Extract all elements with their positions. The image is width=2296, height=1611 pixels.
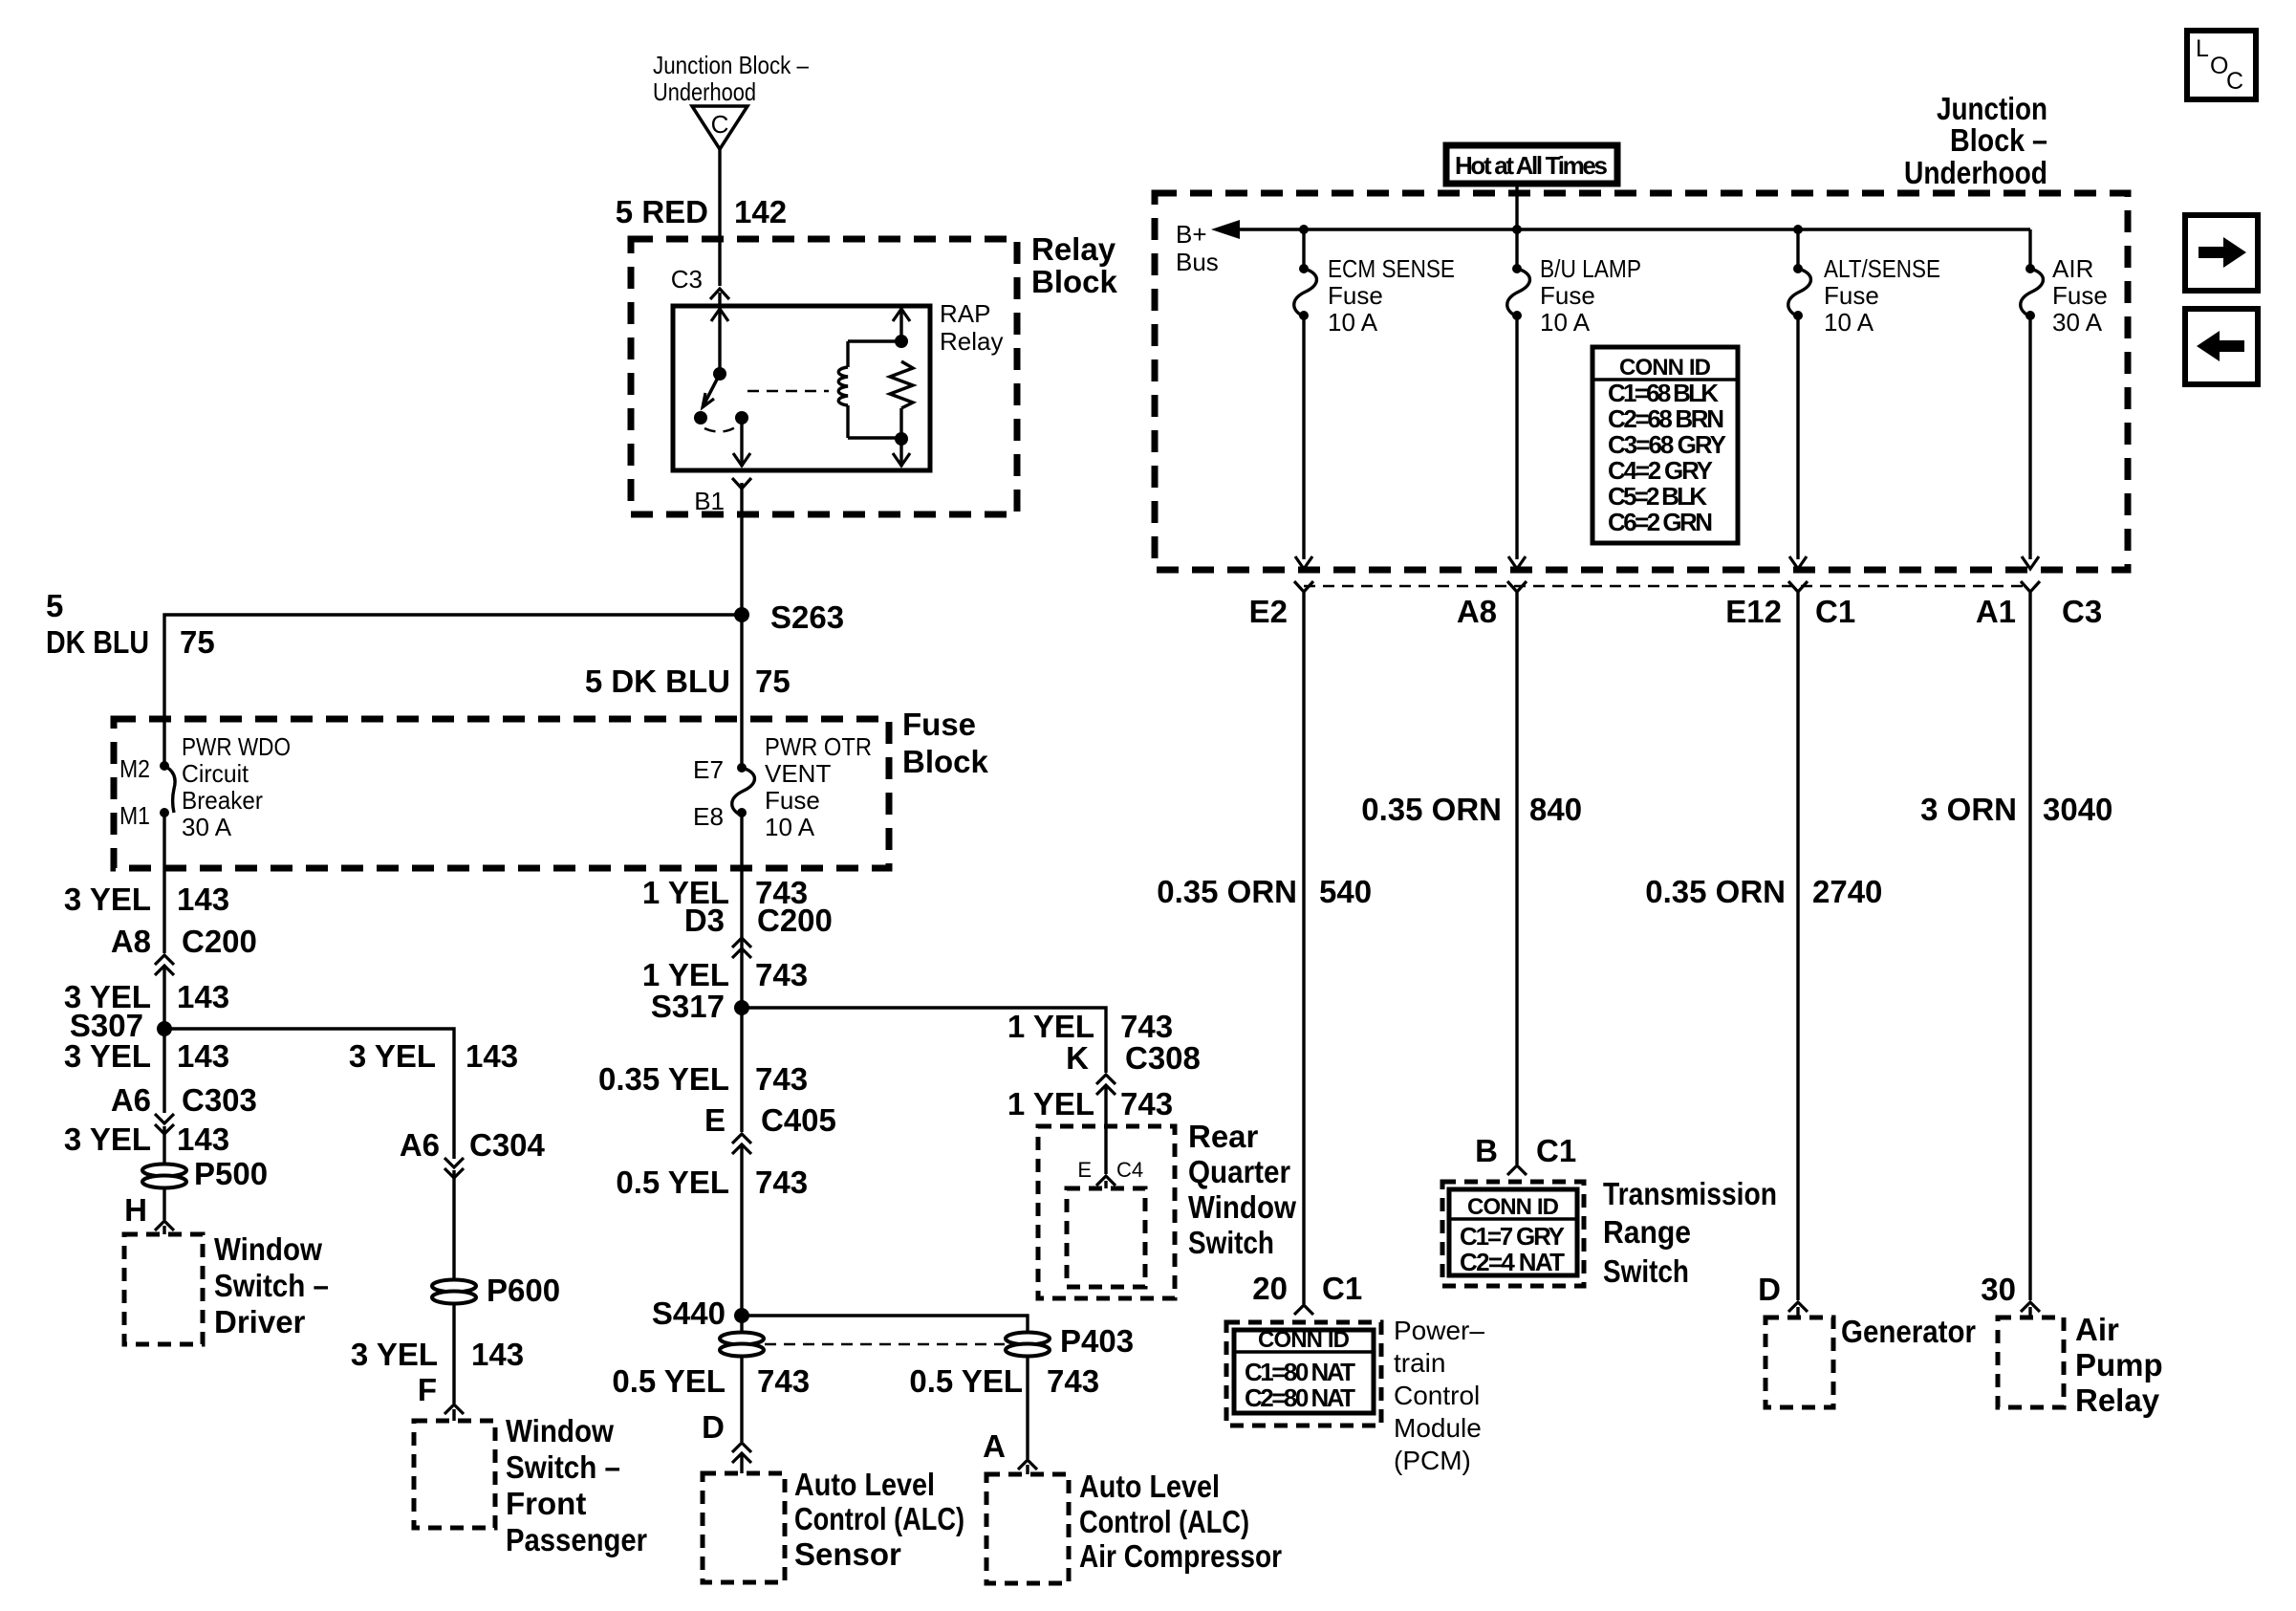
Hot at All Times box [1446, 145, 1617, 184]
svg-text:VENT: VENT [765, 759, 831, 788]
label: 1 YEL 743 (#2) [1007, 1086, 1173, 1121]
svg-text:Range: Range [1603, 1214, 1691, 1250]
svg-text:C3: C3 [671, 265, 703, 294]
grommet at S440 (sensor side) [720, 1333, 764, 1357]
svg-text:C4: C4 [1116, 1158, 1143, 1182]
terminal D double chevron [702, 1409, 751, 1463]
svg-text:D: D [1758, 1272, 1781, 1307]
terminal A8 chevron [1457, 581, 1527, 629]
wire below P600 [452, 1303, 455, 1404]
svg-text:PWR WDO: PWR WDO [182, 732, 291, 761]
svg-text:0.35 ORN: 0.35 ORN [1645, 874, 1786, 909]
wire C405 down to S440 [740, 1146, 743, 1339]
svg-text:75: 75 [180, 624, 215, 660]
connector C308 double chevron up [1096, 1075, 1116, 1095]
svg-text:3 YEL: 3 YEL [349, 1038, 436, 1074]
dashed throw arc [704, 426, 737, 432]
svg-text:C304: C304 [469, 1127, 546, 1163]
svg-text:1 YEL: 1 YEL [642, 957, 729, 992]
svg-text:0.35 YEL: 0.35 YEL [598, 1061, 729, 1097]
svg-text:Hot at All Times: Hot at All Times [1455, 151, 1608, 180]
wire below P403 to A [1026, 1356, 1029, 1459]
svg-text:Driver: Driver [214, 1304, 306, 1339]
svg-text:(PCM): (PCM) [1394, 1446, 1471, 1475]
rear quarter window switch outer dashed box [1038, 1126, 1175, 1298]
label: Window Switch - Driver [214, 1231, 329, 1339]
svg-text:P600: P600 [487, 1273, 560, 1308]
svg-text:CONN ID: CONN ID [1467, 1194, 1559, 1220]
svg-text:143: 143 [177, 882, 229, 917]
terminal H chevron [124, 1192, 174, 1230]
wire below P500 [162, 1187, 165, 1220]
dashed harness link between grommets [765, 1343, 1005, 1346]
label: A6 C304 [400, 1127, 546, 1163]
svg-text:Fuse: Fuse [1328, 281, 1383, 310]
wire D to ALC sensor [740, 1455, 743, 1473]
splice S317 [651, 989, 749, 1024]
svg-text:C200: C200 [182, 924, 257, 959]
svg-text:C3=68 GRY: C3=68 GRY [1608, 430, 1726, 459]
rear quarter window switch inner dashed box [1067, 1188, 1145, 1287]
svg-text:840: 840 [1529, 792, 1582, 827]
label: K C308 [1066, 1040, 1201, 1076]
svg-text:Block: Block [902, 744, 989, 779]
svg-text:C2=4 NAT: C2=4 NAT [1460, 1248, 1565, 1276]
svg-text:Module: Module [1394, 1413, 1482, 1443]
svg-text:0.5 YEL: 0.5 YEL [612, 1363, 726, 1399]
svg-text:S263: S263 [770, 599, 844, 635]
svg-text:743: 743 [1047, 1363, 1099, 1399]
svg-text:Front: Front [506, 1486, 586, 1521]
label: 3 YEL 143 (#2) [64, 979, 229, 1014]
label: Window Switch - Front Passenger [506, 1413, 647, 1557]
wire: S317 branch right and down [742, 1008, 1106, 1073]
label: Junction Block - Underhood (right) [1904, 91, 2047, 190]
svg-text:E: E [1077, 1158, 1092, 1182]
off-page triangle connector C [692, 106, 747, 149]
relay switch input wire with up arrow [711, 308, 728, 381]
AIR fuse branch [2021, 229, 2108, 569]
wire B1 down to S263 [740, 483, 743, 615]
splice S263 [734, 599, 844, 635]
svg-text:A6: A6 [400, 1127, 440, 1163]
connector C303 double chevron down [155, 1114, 174, 1134]
svg-text:A6: A6 [111, 1082, 151, 1118]
wire: E8 down out of fuse block [740, 813, 743, 953]
svg-text:3 YEL: 3 YEL [64, 1121, 151, 1157]
relay resistor (parallel with coil) [890, 361, 913, 467]
svg-text:143: 143 [471, 1337, 524, 1372]
svg-text:CONN ID: CONN ID [1258, 1327, 1350, 1353]
svg-text:Underhood: Underhood [653, 77, 756, 106]
svg-text:540: 540 [1319, 874, 1372, 909]
svg-text:743: 743 [755, 1165, 808, 1200]
svg-text:A8: A8 [111, 924, 151, 959]
terminal E C4 chevron [1077, 1158, 1143, 1186]
svg-text:E7: E7 [693, 755, 724, 784]
svg-text:D3: D3 [684, 903, 725, 938]
svg-text:B+: B+ [1176, 220, 1207, 249]
svg-text:Power–: Power– [1394, 1316, 1484, 1345]
window switch front passenger dashed box [414, 1421, 495, 1528]
label: 1 YEL 743 (#2) [642, 957, 808, 992]
svg-text:C1: C1 [1536, 1133, 1576, 1168]
label: 5 DK BLU 75 (below relay block) [585, 664, 791, 699]
svg-text:3 YEL: 3 YEL [64, 882, 151, 917]
svg-text:10 A: 10 A [765, 813, 815, 841]
svg-text:30 A: 30 A [2052, 308, 2103, 337]
PWR OTR VENT fuse [693, 732, 872, 841]
terminal F chevron [418, 1372, 464, 1414]
svg-text:Control: Control [1394, 1381, 1480, 1410]
svg-text:143: 143 [177, 1038, 229, 1074]
splice S440 [652, 1295, 749, 1331]
svg-text:2740: 2740 [1812, 874, 1882, 909]
svg-text:E12: E12 [1725, 594, 1782, 629]
label: 1 YEL 743 (#1) [642, 875, 808, 910]
svg-text:743: 743 [1120, 1009, 1173, 1044]
svg-text:Pump: Pump [2075, 1347, 2163, 1382]
relay coil branch [838, 308, 910, 438]
relay switch arm (movable contact) [694, 374, 720, 425]
terminal B1 chevron below relay [732, 478, 751, 489]
label: 0.35 ORN 840 [1361, 792, 1582, 827]
svg-text:Window: Window [214, 1231, 322, 1267]
svg-text:C1=80 NAT: C1=80 NAT [1245, 1358, 1355, 1386]
svg-text:Auto Level: Auto Level [1079, 1469, 1220, 1504]
svg-text:Auto Level: Auto Level [794, 1467, 935, 1502]
svg-text:Switch –: Switch – [506, 1449, 620, 1485]
svg-text:Window: Window [1188, 1189, 1296, 1225]
svg-text:Fuse: Fuse [2052, 281, 2108, 310]
svg-text:Passenger: Passenger [506, 1522, 647, 1557]
grommet P500 [142, 1156, 268, 1191]
svg-text:143: 143 [466, 1038, 518, 1074]
svg-text:Junction Block –: Junction Block – [653, 51, 809, 79]
wire: A1 C3 to air pump relay (3 ORN 3040) [2028, 592, 2031, 1300]
connector C405 double chevron up [732, 1134, 751, 1154]
svg-text:0.35 ORN: 0.35 ORN [1157, 874, 1297, 909]
window switch driver dashed box [124, 1234, 203, 1344]
B/U LAMP fuse branch [1507, 225, 1641, 569]
svg-text:Underhood: Underhood [1904, 155, 2047, 190]
svg-text:H: H [124, 1192, 147, 1228]
svg-text:10 A: 10 A [1540, 308, 1591, 337]
terminal D chevron (generator) [1758, 1272, 1808, 1312]
svg-text:5 RED: 5 RED [616, 194, 708, 229]
label: RAP Relay [940, 299, 1003, 356]
relay block dashed box [631, 239, 1017, 514]
svg-text:143: 143 [177, 979, 229, 1014]
transmission range switch dashed box [1442, 1182, 1584, 1286]
svg-text:0.35 ORN: 0.35 ORN [1361, 792, 1502, 827]
svg-text:Fuse: Fuse [1540, 281, 1595, 310]
label: Air Pump Relay [2075, 1312, 2163, 1418]
TRS CONN ID table [1449, 1189, 1577, 1276]
wire: 5 RED 142 (triangle to relay block) [718, 149, 721, 286]
svg-text:Switch –: Switch – [214, 1268, 329, 1303]
svg-text:Air Compressor: Air Compressor [1079, 1538, 1282, 1574]
wire C308 down into rear quarter window switch [1104, 1087, 1107, 1174]
junction block CONN ID table [1592, 347, 1738, 543]
label: Relay Block [1031, 231, 1118, 299]
svg-text:Fuse: Fuse [1824, 281, 1879, 310]
svg-text:Switch: Switch [1188, 1225, 1274, 1260]
svg-text:Relay: Relay [2075, 1382, 2160, 1418]
svg-text:Circuit: Circuit [182, 759, 249, 788]
svg-text:DK BLU: DK BLU [46, 624, 149, 660]
svg-text:A: A [983, 1428, 1006, 1464]
wire: S307 branch right to passenger window switch [164, 1029, 454, 1159]
svg-text:E8: E8 [693, 802, 724, 831]
wire H to window switch driver [162, 1226, 165, 1234]
svg-text:5 DK BLU: 5 DK BLU [585, 664, 730, 699]
label: Fuse Block [902, 707, 989, 779]
svg-text:5: 5 [46, 588, 63, 623]
PWR WDO circuit breaker [119, 732, 291, 841]
svg-text:S440: S440 [652, 1295, 726, 1331]
svg-text:ALT/SENSE: ALT/SENSE [1824, 254, 1940, 283]
left arrow box [2185, 309, 2258, 384]
label: Power-train Control Module (PCM) [1394, 1316, 1484, 1475]
terminal 20 C1 chevron (PCM) [1252, 1271, 1362, 1315]
svg-text:Control (ALC): Control (ALC) [1079, 1504, 1249, 1539]
svg-text:C405: C405 [761, 1102, 836, 1138]
svg-text:ECM SENSE: ECM SENSE [1328, 254, 1455, 283]
svg-text:B: B [1475, 1133, 1498, 1168]
PCM dashed box [1226, 1322, 1381, 1426]
label: 3 YEL 143 (passenger) [351, 1337, 524, 1372]
svg-text:Relay: Relay [940, 327, 1003, 356]
label: 1 YEL 743 (branch) [1007, 1009, 1173, 1044]
svg-text:B1: B1 [694, 487, 725, 515]
label: 0.5 YEL 743 (compressor wire) [909, 1363, 1099, 1399]
label: E C405 [704, 1102, 836, 1138]
thin dashed connector interface line below junction block [1304, 585, 2030, 588]
svg-text:C1=7 GRY: C1=7 GRY [1460, 1222, 1565, 1251]
svg-text:3 YEL: 3 YEL [64, 1038, 151, 1074]
svg-text:Relay: Relay [1031, 231, 1116, 267]
wire: branch S263 left and down to fuse block [164, 615, 742, 766]
svg-text:143: 143 [177, 1121, 229, 1157]
ALC air compressor dashed box [986, 1474, 1069, 1583]
svg-text:L: L [2196, 35, 2209, 62]
svg-text:Junction: Junction [1937, 91, 2047, 126]
svg-text:Bus: Bus [1176, 248, 1219, 276]
wire: M1 down out of fuse block [162, 813, 165, 953]
svg-text:Block: Block [1031, 264, 1118, 299]
wire below grommet to D [740, 1356, 743, 1442]
svg-text:RAP: RAP [940, 299, 990, 328]
svg-text:C3: C3 [2062, 594, 2102, 629]
label: 0.35 ORN 2740 [1645, 874, 1882, 909]
svg-text:C303: C303 [182, 1082, 257, 1118]
label: 3 YEL 143 (#1) [64, 882, 229, 917]
svg-text:1 YEL: 1 YEL [1007, 1009, 1094, 1044]
B+ bus line with left arrow [1176, 220, 2030, 276]
connector C200 double chevron (left) [155, 955, 174, 975]
junction block dashed box [1155, 193, 2128, 570]
label: 5 / DK BLU / 75 (left) [46, 588, 215, 660]
label: A8 C200 [111, 924, 257, 959]
svg-text:train: train [1394, 1348, 1445, 1378]
svg-text:CONN ID: CONN ID [1619, 355, 1711, 381]
svg-text:AIR: AIR [2052, 254, 2093, 283]
wire A to compressor box [1026, 1465, 1029, 1474]
svg-text:P403: P403 [1060, 1323, 1134, 1359]
svg-text:C200: C200 [757, 903, 833, 938]
wire: S263 down to fuse block [740, 615, 743, 768]
label: Rear Quarter Window Switch [1188, 1119, 1296, 1260]
svg-text:Rear: Rear [1188, 1119, 1259, 1154]
label: Transmission Range Switch [1603, 1176, 1777, 1289]
svg-text:743: 743 [755, 957, 808, 992]
svg-text:743: 743 [757, 1363, 810, 1399]
svg-text:Sensor: Sensor [794, 1536, 901, 1572]
svg-text:D: D [702, 1409, 725, 1445]
svg-text:B/U LAMP: B/U LAMP [1540, 254, 1641, 283]
fuse block dashed box [114, 719, 889, 868]
label: 3 YEL 143 (#4) [64, 1121, 229, 1157]
label: 5 RED 142 [616, 194, 787, 229]
label: 3 ORN 3040 [1920, 792, 2112, 827]
svg-text:F: F [418, 1372, 437, 1407]
wire C200 to S317 [740, 950, 743, 1132]
svg-text:1 YEL: 1 YEL [1007, 1086, 1094, 1121]
svg-text:20: 20 [1252, 1271, 1288, 1306]
label: Junction Block - Underhood (top-left) [653, 51, 809, 106]
svg-text:C2=68 BRN: C2=68 BRN [1608, 404, 1724, 433]
grommet P600 [432, 1273, 560, 1308]
svg-text:Block –: Block – [1950, 122, 2047, 158]
terminal A1 C3 chevron [1976, 581, 2102, 629]
air pump relay dashed box [1998, 1317, 2064, 1407]
wire D into generator box [1796, 1307, 1799, 1317]
wire: S440 branch right to compressor [742, 1316, 1028, 1333]
svg-text:10 A: 10 A [1328, 308, 1378, 337]
generator dashed box [1765, 1317, 1833, 1407]
wire: hot feed down to bus [1515, 183, 1518, 229]
svg-text:Quarter: Quarter [1188, 1154, 1290, 1189]
label: 0.5 YEL 743 (sensor wire) [612, 1363, 810, 1399]
svg-text:C4=2 GRY: C4=2 GRY [1608, 456, 1713, 485]
svg-text:0.5 YEL: 0.5 YEL [909, 1363, 1023, 1399]
wire 30 into air pump relay box [2028, 1307, 2031, 1317]
svg-text:S317: S317 [651, 989, 725, 1024]
terminal A chevron [983, 1428, 1037, 1469]
wire: E12 C1 to generator (0.35 ORN 2740) [1796, 592, 1799, 1300]
svg-text:0.5 YEL: 0.5 YEL [616, 1165, 729, 1200]
svg-text:743: 743 [755, 1061, 808, 1097]
svg-text:C1: C1 [1815, 594, 1855, 629]
terminal E2 chevron [1249, 581, 1313, 629]
svg-text:10 A: 10 A [1824, 308, 1874, 337]
terminal B C1 chevron (TRS) [1475, 1133, 1576, 1175]
svg-text:A1: A1 [1976, 594, 2016, 629]
svg-text:E: E [704, 1102, 726, 1138]
wire F to window switch front passenger [452, 1409, 455, 1421]
label: 3 YEL 143 (on S307 branch) [349, 1038, 518, 1074]
svg-text:E2: E2 [1249, 594, 1288, 629]
svg-text:3 YEL: 3 YEL [351, 1337, 438, 1372]
terminal E12 C1 chevron [1725, 581, 1855, 629]
svg-text:C1=68 BLK: C1=68 BLK [1608, 379, 1719, 407]
RAP relay solid box [673, 306, 930, 470]
svg-text:Air: Air [2075, 1312, 2119, 1347]
svg-text:75: 75 [755, 664, 791, 699]
svg-text:C2=80 NAT: C2=80 NAT [1245, 1383, 1355, 1412]
svg-text:P500: P500 [194, 1156, 268, 1191]
svg-text:Transmission: Transmission [1603, 1176, 1777, 1211]
LOC box [2187, 31, 2256, 99]
svg-text:Window: Window [506, 1413, 614, 1448]
wire: A8 to transmission range switch (0.35 ORN 840) [1515, 592, 1518, 1165]
svg-text:142: 142 [734, 194, 787, 229]
terminal C3 chevron [710, 289, 729, 299]
ECM SENSE fuse branch [1294, 225, 1455, 569]
svg-text:3 ORN: 3 ORN [1920, 792, 2017, 827]
wire C3 into relay [718, 293, 721, 306]
wire into inner box [1104, 1181, 1107, 1188]
label: A6 C303 [111, 1082, 257, 1118]
svg-text:Fuse: Fuse [902, 707, 976, 742]
svg-text:Control (ALC): Control (ALC) [794, 1501, 964, 1536]
svg-text:C: C [711, 110, 729, 139]
wire below C200 to S307 [162, 968, 165, 1113]
connector C304 double chevron down [444, 1158, 464, 1178]
svg-text:C308: C308 [1125, 1040, 1201, 1076]
svg-text:M2: M2 [119, 754, 150, 783]
svg-text:30: 30 [1981, 1272, 2016, 1307]
connector C200 double chevron (middle) [732, 938, 751, 958]
label: 3 YEL 143 (#3 below S307) [64, 1038, 229, 1074]
right arrow box [2185, 215, 2258, 291]
svg-text:C1: C1 [1322, 1271, 1362, 1306]
label: Auto Level Control (ALC) Sensor [794, 1467, 964, 1572]
svg-text:C5=2 BLK: C5=2 BLK [1608, 482, 1707, 511]
grommet P403 (compressor side) [1006, 1323, 1134, 1359]
svg-text:Breaker: Breaker [182, 786, 263, 815]
svg-text:K: K [1066, 1040, 1089, 1076]
label: 0.35 ORN 540 [1157, 874, 1372, 909]
splice S307 [70, 1008, 172, 1043]
svg-text:A8: A8 [1457, 594, 1497, 629]
svg-text:C: C [2226, 68, 2243, 95]
label: 0.5 YEL 743 [616, 1165, 808, 1200]
ALT/SENSE fuse branch [1788, 225, 1940, 569]
svg-text:M1: M1 [119, 801, 150, 830]
label: Auto Level Control (ALC) Air Compressor [1079, 1469, 1282, 1574]
label: D3 C200 [684, 903, 833, 938]
svg-text:30 A: 30 A [182, 813, 232, 841]
svg-text:743: 743 [1120, 1086, 1173, 1121]
wire below C303 to P500 [162, 1126, 165, 1165]
svg-text:PWR OTR: PWR OTR [765, 732, 872, 761]
svg-text:C6=2 GRN: C6=2 GRN [1608, 508, 1713, 536]
relay switch output contact with down arrow [733, 411, 750, 467]
label: 0.35 YEL 743 [598, 1061, 808, 1097]
wire: E2 to PCM (0.35 ORN 540) [1302, 592, 1305, 1304]
ALC sensor dashed box [703, 1473, 785, 1582]
wire C304 down to P600 [452, 1170, 455, 1281]
svg-text:Fuse: Fuse [765, 786, 820, 815]
svg-text:3040: 3040 [2043, 792, 2112, 827]
dashed actuation line to coil [747, 390, 829, 393]
svg-text:Generator: Generator [1841, 1314, 1976, 1349]
terminal 30 chevron (air pump relay) [1981, 1272, 2040, 1312]
PCM CONN ID table [1234, 1327, 1374, 1413]
svg-text:Switch: Switch [1603, 1253, 1689, 1289]
